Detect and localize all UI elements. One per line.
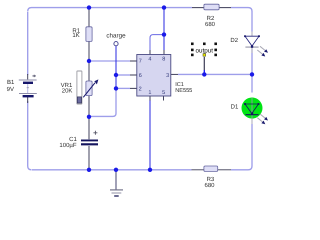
wire Vcc to pins 4 8 blue	[163, 8, 165, 35]
svg-text:680: 680	[204, 182, 215, 189]
svg-text:8: 8	[162, 57, 165, 63]
node dot pin6	[114, 73, 118, 77]
svg-text:C1: C1	[69, 136, 77, 143]
node dot top R1	[87, 5, 91, 9]
node dot pins48 branch	[162, 32, 166, 36]
wire top rail	[28, 8, 192, 12]
capacitor C1 bottom plate	[81, 143, 98, 145]
wire charge vertical blue	[115, 46, 117, 88]
node dot output wire	[202, 72, 206, 76]
node dot pin2	[114, 86, 118, 90]
LED D2 arrow 2	[257, 50, 262, 54]
wire D1 to bottom right corner	[231, 124, 252, 170]
svg-text:1K: 1K	[72, 32, 79, 39]
output label anchor handle yellow	[203, 54, 206, 57]
IC1 NE555 pin stubs bottom	[150, 96, 164, 101]
LED D2 cathode bar	[245, 46, 258, 48]
wire output label lead	[203, 57, 205, 70]
svg-text:2: 2	[139, 87, 142, 93]
wire charge node to C1 top	[89, 88, 116, 116]
svg-text:B1: B1	[7, 79, 15, 86]
capacitor C1 plus sign	[93, 131, 97, 135]
svg-text:5: 5	[162, 90, 165, 96]
ground stub	[115, 170, 117, 190]
resistor R2 leads	[192, 7, 231, 9]
IC1 NE555 body	[137, 55, 171, 97]
IC1 NE555 pin stub right	[171, 73, 178, 75]
node dot C1 bottom	[87, 168, 91, 172]
wire pin6 horizontal	[116, 74, 130, 76]
capacitor C1 top plate	[81, 139, 98, 141]
LED D2 arrow 1	[260, 46, 265, 50]
LED D1 triangle	[245, 104, 259, 114]
wire pin1 to ground rail blue	[149, 100, 151, 170]
wire branch to pin4 blue	[150, 35, 164, 50]
svg-text:D1: D1	[231, 104, 239, 111]
ground bar 2	[112, 192, 122, 194]
charge test point circle	[114, 42, 118, 46]
output label selection handles	[191, 43, 217, 57]
potentiometer VR1 slider track	[77, 71, 82, 104]
node dot VR1 C1 junction	[87, 115, 91, 119]
wire top rail right of R2	[231, 8, 252, 32]
capacitor C1 leads	[88, 117, 90, 170]
battery B1 inter-cell wire	[27, 83, 29, 93]
wire pin3 horizontal	[178, 73, 252, 75]
svg-text:R2: R2	[207, 15, 215, 22]
LED D1 lead bottom	[251, 119, 253, 125]
svg-text:D2: D2	[230, 37, 238, 44]
LED D1 arrow 1	[260, 114, 265, 118]
resistor R2 body	[204, 4, 219, 10]
resistor R3 leads	[192, 169, 232, 171]
svg-text:9V: 9V	[7, 86, 14, 93]
svg-text:6: 6	[139, 73, 142, 79]
svg-text:680: 680	[205, 21, 216, 28]
potentiometer VR1 slider thumb	[77, 97, 81, 103]
LED D2 triangle	[245, 36, 259, 46]
svg-text:20K: 20K	[62, 87, 73, 94]
battery B1 cell2 short plate	[23, 95, 34, 97]
LED D2 apex dot	[251, 46, 253, 48]
LED D1 cathode bar	[245, 114, 258, 116]
node dot top Vcc	[162, 5, 166, 9]
svg-text:IC1: IC1	[175, 82, 184, 88]
svg-text:charge: charge	[106, 32, 126, 39]
wire pin2 horizontal	[116, 87, 130, 89]
LED D1 body	[242, 98, 263, 119]
resistor R1 body	[86, 27, 92, 42]
IC1 NE555 pin stubs left	[130, 61, 137, 88]
resistor R3 body	[204, 166, 218, 171]
LED D1 wire through	[251, 98, 253, 118]
wire pin3 to D1	[251, 74, 253, 92]
svg-text:1: 1	[148, 90, 151, 96]
IC1 NE555 pin stubs top	[150, 50, 164, 55]
node dot R1 VR1 junction	[87, 59, 91, 63]
ground bar 3	[114, 195, 119, 197]
node dot pin1 bottom	[148, 168, 152, 172]
wire output label lead blue	[203, 70, 205, 74]
LED D2 lead top	[251, 32, 253, 37]
wire pin8 down blue	[163, 35, 165, 50]
potentiometer VR1 body	[86, 81, 92, 96]
potentiometer VR1 leads	[88, 61, 90, 117]
LED D2 lead bottom	[251, 48, 253, 53]
battery B1 cell1 long plate	[19, 79, 37, 81]
svg-text:R3: R3	[207, 176, 215, 183]
wire right side D2 to pin3	[251, 49, 253, 75]
svg-text:output: output	[195, 47, 213, 54]
battery B1 cell1 short plate	[23, 82, 33, 84]
wire pin7 horizontal	[89, 60, 130, 62]
wire left border lower	[28, 101, 32, 170]
battery B1 minus mark	[27, 87, 29, 89]
potentiometer VR1 arrow	[83, 83, 95, 98]
svg-text:NE555: NE555	[175, 88, 192, 94]
svg-text:7: 7	[139, 59, 142, 65]
node dot ground	[114, 168, 118, 172]
svg-text:3: 3	[166, 73, 169, 79]
resistor R1 leads	[88, 8, 90, 61]
LED D2 lead through	[251, 36, 253, 47]
ground bar 1	[110, 189, 123, 191]
wire left border	[27, 12, 29, 75]
svg-text:100µF: 100µF	[59, 142, 76, 149]
svg-text:4: 4	[148, 57, 151, 63]
node dot pin3 right	[250, 72, 254, 76]
LED D1 apex dot	[251, 113, 253, 115]
battery B1 leads	[27, 74, 29, 103]
battery B1 cell2 long plate	[19, 93, 37, 95]
battery B1 plus sign	[32, 75, 36, 77]
wire bottom rail	[32, 169, 192, 171]
LED D1 arrow 2	[257, 118, 262, 122]
